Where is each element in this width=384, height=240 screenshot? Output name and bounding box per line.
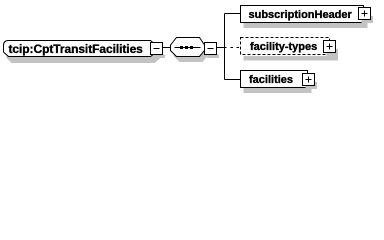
trunk line <box>224 14 226 80</box>
expand button on subscriptionHeader <box>359 8 374 24</box>
wire: trunk to subscriptionHeader <box>225 13 241 15</box>
element facilities <box>241 71 312 94</box>
expand button on facilities <box>303 74 318 90</box>
svg-text:facility-types: facility-types <box>250 41 317 53</box>
svg-text:facilities: facilities <box>249 74 293 86</box>
sequence compositor <box>171 38 208 63</box>
wire: sequence to trunk <box>217 47 227 49</box>
expand button on facility-types <box>324 41 339 58</box>
collapse button on sequence <box>205 43 220 59</box>
dashed wire: trunk to facility-types (optional) <box>231 47 241 49</box>
wire: element to sequence <box>163 47 171 49</box>
svg-text:subscriptionHeader: subscriptionHeader <box>249 9 353 21</box>
optional element facility-types <box>241 38 339 61</box>
element subscriptionHeader <box>241 6 368 29</box>
element tcip:CptTransitFacilities <box>4 41 161 64</box>
wire: trunk to facilities <box>225 79 241 81</box>
svg-text:tcip:CptTransitFacilities: tcip:CptTransitFacilities <box>9 42 144 56</box>
collapse button on tcip:CptTransitFacilities <box>151 43 166 59</box>
